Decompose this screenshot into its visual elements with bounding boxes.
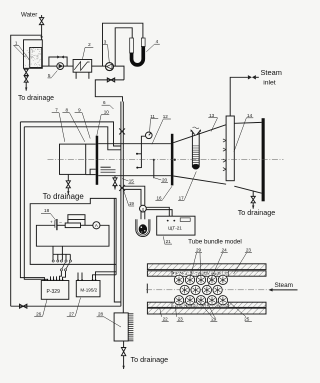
svg-text:5: 5 bbox=[48, 73, 51, 78]
svg-text:22: 22 bbox=[163, 316, 169, 321]
svg-text:To drainage: To drainage bbox=[18, 95, 54, 102]
svg-text:26: 26 bbox=[36, 311, 42, 316]
svg-text:18: 18 bbox=[44, 208, 50, 213]
svg-text:23: 23 bbox=[178, 316, 184, 321]
svg-text:9: 9 bbox=[78, 108, 81, 113]
svg-text:12: 12 bbox=[163, 114, 169, 119]
svg-text:29: 29 bbox=[211, 316, 217, 321]
svg-text:10: 10 bbox=[104, 109, 110, 114]
svg-text:1: 1 bbox=[15, 40, 18, 45]
svg-text:28: 28 bbox=[98, 312, 104, 317]
svg-text:8: 8 bbox=[66, 108, 69, 113]
svg-text:Steam: Steam bbox=[261, 68, 282, 77]
svg-text:To drainage: To drainage bbox=[43, 192, 85, 201]
svg-text:M-195/2: M-195/2 bbox=[80, 287, 97, 292]
svg-text:4: 4 bbox=[156, 39, 159, 44]
svg-text:ЩТ-21: ЩТ-21 bbox=[168, 225, 182, 230]
svg-text:29: 29 bbox=[196, 248, 202, 253]
svg-text:19: 19 bbox=[129, 201, 135, 206]
svg-text:13: 13 bbox=[209, 113, 215, 118]
svg-text:Tube bundle model: Tube bundle model bbox=[188, 238, 242, 245]
svg-text:14: 14 bbox=[247, 113, 253, 118]
svg-text:11: 11 bbox=[150, 114, 155, 119]
svg-text:2: 2 bbox=[88, 42, 91, 47]
svg-text:–: – bbox=[59, 220, 62, 225]
svg-text:15: 15 bbox=[129, 179, 135, 184]
svg-text:A: A bbox=[95, 223, 98, 228]
svg-text:3: 3 bbox=[104, 39, 107, 44]
svg-text:24: 24 bbox=[222, 248, 228, 253]
svg-text:25: 25 bbox=[244, 316, 250, 321]
svg-text:23: 23 bbox=[246, 248, 252, 253]
svg-text:Water: Water bbox=[21, 11, 37, 18]
svg-text:inlet: inlet bbox=[263, 80, 276, 87]
svg-text:17: 17 bbox=[179, 196, 185, 201]
svg-text:Steam: Steam bbox=[275, 282, 293, 289]
svg-text:To drainage: To drainage bbox=[131, 355, 169, 364]
svg-text:6: 6 bbox=[103, 100, 106, 105]
svg-text:To drainage: To drainage bbox=[238, 208, 276, 217]
svg-text:21: 21 bbox=[166, 239, 172, 244]
svg-text:27: 27 bbox=[69, 311, 75, 316]
svg-text:20: 20 bbox=[162, 177, 168, 182]
svg-text:7: 7 bbox=[55, 108, 58, 113]
svg-text:P-329: P-329 bbox=[47, 289, 61, 295]
svg-text:16: 16 bbox=[156, 196, 162, 201]
